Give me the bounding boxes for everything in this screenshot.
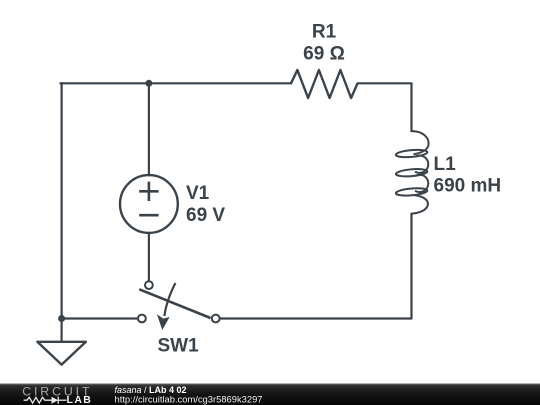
- switch right terminal circle: [212, 315, 220, 323]
- switch pole terminal circle: [145, 281, 153, 289]
- voltage source V1: [120, 175, 178, 233]
- ground: [37, 342, 86, 365]
- svg-text:690 mH: 690 mH: [434, 176, 502, 197]
- switch SW1: [138, 281, 220, 330]
- svg-text:LAB: LAB: [67, 394, 93, 405]
- svg-text:http://circuitlab.com/cg3r5869: http://circuitlab.com/cg3r5869k3297: [115, 394, 263, 405]
- wire resistor to corner and down to inductor: [358, 83, 412, 131]
- wire top horizontal: [61, 82, 291, 84]
- junction dot top node: [145, 80, 152, 87]
- resistor R1: [291, 70, 358, 98]
- switch blade: [139, 289, 210, 318]
- svg-text:SW1: SW1: [158, 336, 200, 357]
- logo resistor-diode symbol: [24, 397, 67, 404]
- switch actuation arrow: [164, 283, 175, 316]
- wire bottom left to switch: [62, 317, 138, 319]
- svg-text:V1: V1: [186, 183, 210, 204]
- wire V1 bottom lead: [148, 233, 150, 281]
- wire inductor bottom to switch: [220, 214, 411, 319]
- inductor L1: [396, 131, 429, 214]
- svg-text:R1: R1: [312, 21, 337, 42]
- wire V1 top lead: [148, 83, 150, 175]
- svg-text:69 V: 69 V: [186, 205, 225, 226]
- switch left terminal circle: [138, 315, 146, 323]
- junction dot ground node: [58, 315, 65, 322]
- svg-text:69 Ω: 69 Ω: [303, 44, 345, 65]
- wire left vertical: [60, 83, 62, 318]
- wire ground stub: [60, 319, 62, 342]
- footer bar: [0, 384, 540, 405]
- svg-text:L1: L1: [434, 154, 457, 175]
